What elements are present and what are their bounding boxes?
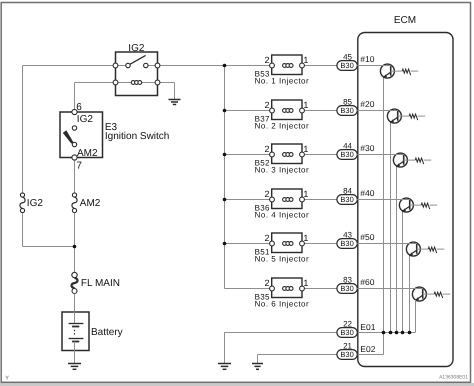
svg-text:B30: B30 bbox=[340, 61, 353, 70]
svg-text:#10: #10 bbox=[360, 54, 374, 64]
svg-text:2: 2 bbox=[264, 144, 269, 154]
svg-text:2: 2 bbox=[264, 278, 269, 288]
svg-text:FL MAIN: FL MAIN bbox=[81, 278, 120, 289]
svg-text:Y: Y bbox=[5, 375, 9, 381]
svg-text:No. 1 Injector: No. 1 Injector bbox=[255, 77, 310, 86]
svg-text:No. 4 Injector: No. 4 Injector bbox=[255, 211, 310, 220]
svg-text:44: 44 bbox=[343, 142, 352, 151]
svg-text:No. 6 Injector: No. 6 Injector bbox=[255, 300, 310, 309]
svg-text:No. 3 Injector: No. 3 Injector bbox=[255, 166, 310, 175]
svg-text:ECM: ECM bbox=[394, 15, 416, 26]
svg-text:Ignition Switch: Ignition Switch bbox=[105, 131, 169, 142]
svg-text:83: 83 bbox=[343, 276, 352, 285]
svg-text:Battery: Battery bbox=[91, 327, 123, 338]
svg-text:B30: B30 bbox=[340, 106, 353, 115]
svg-text:21: 21 bbox=[343, 342, 352, 351]
svg-text:#20: #20 bbox=[360, 99, 374, 109]
svg-text:E02: E02 bbox=[360, 344, 375, 354]
svg-text:#30: #30 bbox=[360, 143, 374, 153]
svg-text:1: 1 bbox=[303, 233, 308, 243]
svg-text:B30: B30 bbox=[340, 195, 353, 204]
svg-text:#40: #40 bbox=[360, 188, 374, 198]
svg-text:AM2: AM2 bbox=[80, 198, 101, 209]
svg-text:7: 7 bbox=[76, 160, 82, 171]
svg-text:No. 5 Injector: No. 5 Injector bbox=[255, 255, 310, 264]
svg-text:1: 1 bbox=[303, 100, 308, 110]
svg-text:IG2: IG2 bbox=[128, 43, 145, 54]
svg-text:IG2: IG2 bbox=[77, 114, 94, 125]
svg-text:AM2: AM2 bbox=[77, 148, 98, 159]
svg-text:2: 2 bbox=[264, 55, 269, 65]
svg-text:IG2: IG2 bbox=[27, 198, 44, 209]
svg-text:1: 1 bbox=[303, 144, 308, 154]
svg-text:2: 2 bbox=[264, 233, 269, 243]
svg-text:84: 84 bbox=[343, 187, 352, 196]
svg-text:85: 85 bbox=[343, 98, 352, 107]
svg-text:B30: B30 bbox=[340, 284, 353, 293]
svg-text:#50: #50 bbox=[360, 232, 374, 242]
svg-text:45: 45 bbox=[343, 53, 352, 62]
svg-text:2: 2 bbox=[264, 100, 269, 110]
svg-text:6: 6 bbox=[76, 102, 82, 113]
svg-text:B30: B30 bbox=[340, 350, 353, 359]
svg-text:A136308E01: A136308E01 bbox=[439, 375, 468, 381]
svg-text:43: 43 bbox=[343, 231, 352, 240]
svg-text:#60: #60 bbox=[360, 277, 374, 287]
svg-text:22: 22 bbox=[343, 320, 352, 329]
svg-text:2: 2 bbox=[264, 189, 269, 199]
svg-text:E01: E01 bbox=[360, 322, 375, 332]
svg-text:B30: B30 bbox=[340, 328, 353, 337]
svg-text:1: 1 bbox=[303, 55, 308, 65]
svg-text:No. 2 Injector: No. 2 Injector bbox=[255, 122, 310, 131]
svg-text:B30: B30 bbox=[340, 239, 353, 248]
svg-text:B30: B30 bbox=[340, 150, 353, 159]
svg-text:1: 1 bbox=[303, 189, 308, 199]
svg-text:1: 1 bbox=[303, 278, 308, 288]
